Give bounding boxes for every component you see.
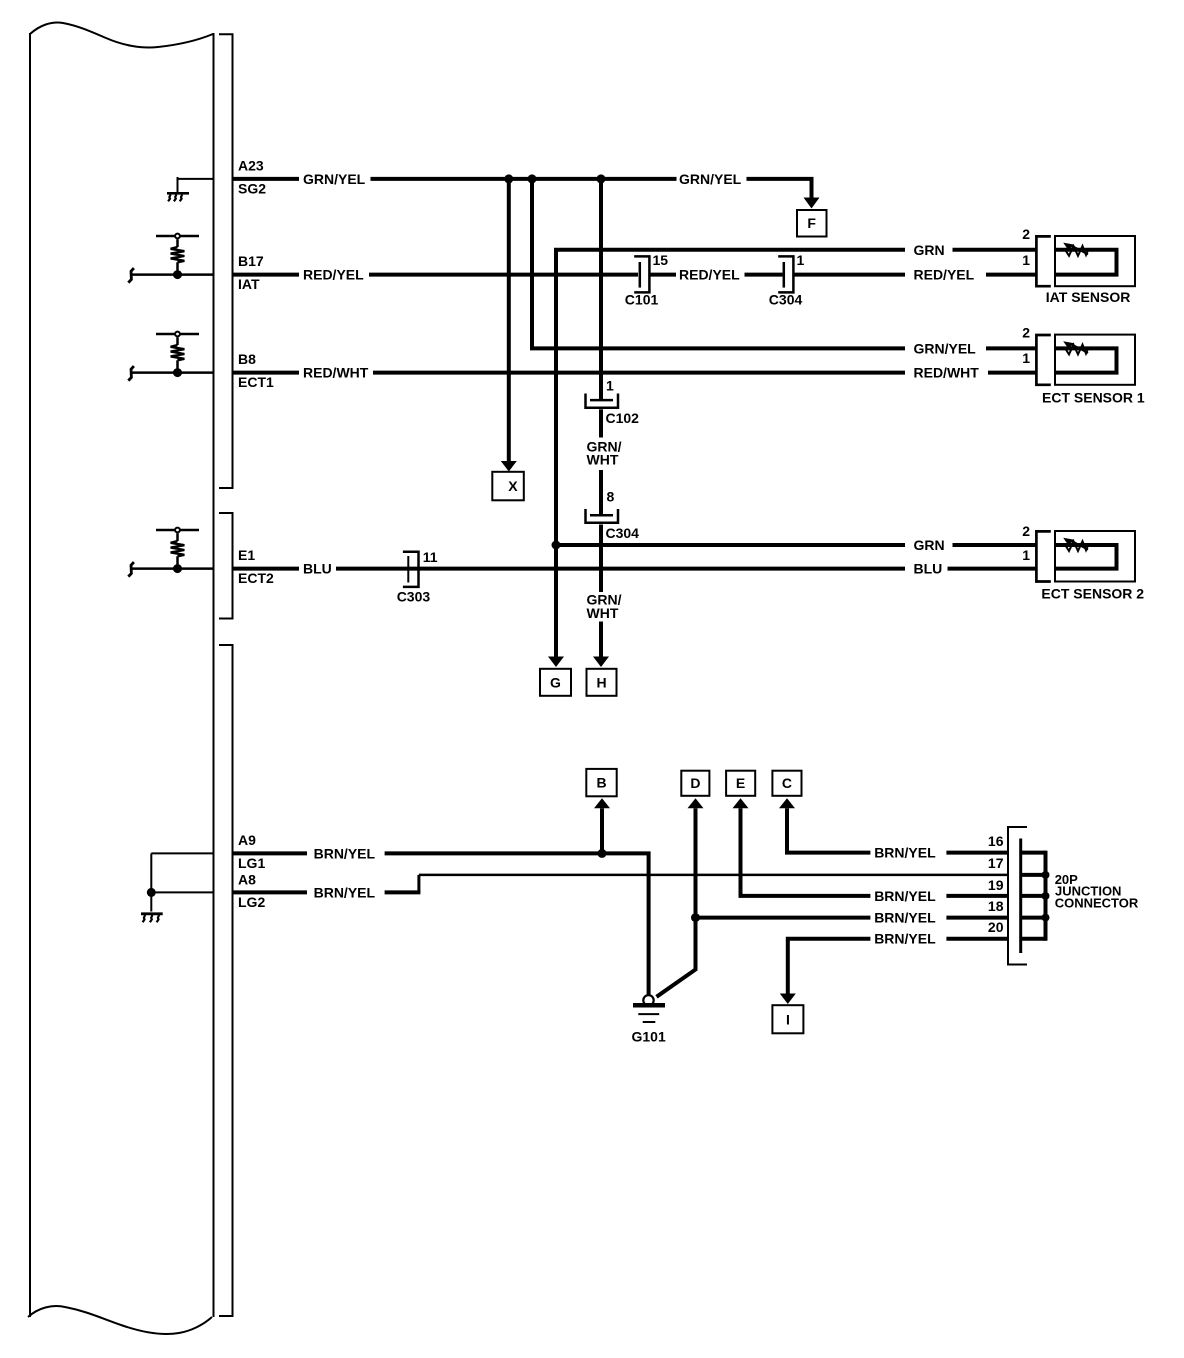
wire E1 BLU segment 1 bbox=[233, 567, 300, 571]
internal wire to A9 pin bbox=[151, 852, 213, 854]
arrowhead into X bbox=[501, 461, 517, 472]
connector C304 bracket (horizontal wire) bbox=[778, 256, 793, 292]
svg-text:1: 1 bbox=[1022, 350, 1030, 366]
connector box C bbox=[772, 771, 801, 796]
resistor (pull-up) inside ECM at B8 bbox=[156, 332, 199, 373]
svg-text:C303: C303 bbox=[397, 589, 431, 605]
junction dots on bus bbox=[1042, 871, 1050, 879]
junction dot at B8 internal node bbox=[173, 368, 182, 377]
svg-text:WHT: WHT bbox=[587, 605, 619, 621]
internal wire to B8 pin bbox=[132, 371, 214, 374]
svg-text:2: 2 bbox=[1022, 324, 1030, 340]
wire x556 down to G bbox=[554, 545, 558, 657]
svg-text:G101: G101 bbox=[632, 1029, 666, 1045]
wire RED/YEL toward IAT sensor bbox=[795, 273, 906, 277]
wire A8 BRN/YEL to junction connector pin 17 bbox=[419, 874, 1008, 877]
connector box H bbox=[587, 669, 617, 696]
connector box G bbox=[540, 669, 571, 696]
svg-text:20: 20 bbox=[988, 919, 1004, 935]
wire GRN/WHT below C102 bbox=[599, 409, 603, 437]
svg-text:F: F bbox=[807, 215, 816, 231]
svg-text:RED/YEL: RED/YEL bbox=[914, 267, 975, 283]
svg-text:WHT: WHT bbox=[587, 452, 619, 468]
wire drop to X box bbox=[507, 179, 511, 461]
connector C303 bracket bbox=[403, 552, 419, 587]
svg-text:11: 11 bbox=[423, 549, 438, 565]
arrowhead into G bbox=[548, 657, 564, 668]
arrowhead into F bbox=[804, 198, 820, 209]
wire A8 BRN/YEL segment 2 bbox=[385, 890, 421, 894]
connector C101 pin bar bbox=[639, 262, 642, 288]
wire pin 18 to junction connector bbox=[946, 916, 1008, 920]
svg-text:ECT1: ECT1 bbox=[238, 374, 274, 390]
wire GRN into IAT plug bbox=[953, 248, 1036, 252]
20P junction connector bus stubs bbox=[1021, 851, 1046, 855]
connector box F bbox=[797, 210, 827, 237]
IAT SENSOR thermistor bbox=[1063, 243, 1088, 256]
svg-text:B: B bbox=[596, 775, 606, 791]
wire GRN/WHT to H bbox=[599, 622, 603, 657]
svg-text:15: 15 bbox=[653, 252, 669, 268]
wire drop x532 to ECT SENSOR 1 GRN/YEL bbox=[532, 179, 905, 349]
ECT SENSOR 2 plug bbox=[1036, 531, 1050, 581]
junction dot at x556 ECT2 GRN node bbox=[552, 541, 561, 550]
svg-text:I: I bbox=[786, 1012, 790, 1028]
connector box E bbox=[726, 771, 755, 796]
IAT SENSOR body bbox=[1055, 236, 1135, 286]
svg-text:RED/YEL: RED/YEL bbox=[679, 267, 740, 283]
svg-text:E1: E1 bbox=[238, 547, 255, 563]
wire pin 20 to junction connector bbox=[946, 937, 1008, 941]
resistor (pull-up) inside ECM at E1 bbox=[156, 528, 199, 569]
arrowhead into I bbox=[780, 994, 796, 1005]
ECT SENSOR 2 body bbox=[1055, 531, 1135, 582]
wire A9 BRN/YEL segment 1 bbox=[233, 851, 308, 855]
svg-text:GRN: GRN bbox=[914, 242, 945, 258]
arrowhead into E bbox=[733, 798, 749, 808]
resistor (pull-up) inside ECM at B17 bbox=[156, 234, 199, 275]
internal wire to B17 pin bbox=[132, 273, 214, 276]
ECT SENSOR 2 internal circuit bbox=[1055, 545, 1117, 569]
svg-text:A23: A23 bbox=[238, 158, 264, 174]
svg-text:C101: C101 bbox=[625, 292, 659, 308]
ECT SENSOR 1 thermistor bbox=[1063, 341, 1088, 354]
svg-text:BLU: BLU bbox=[914, 561, 943, 577]
junction dot at E1 internal node bbox=[173, 564, 182, 573]
svg-text:GRN: GRN bbox=[914, 537, 945, 553]
svg-text:ECT SENSOR 2: ECT SENSOR 2 bbox=[1041, 585, 1144, 601]
junction dot node at x509 on GRN/YEL bbox=[504, 174, 513, 183]
wire A9 BRN/YEL segment 2 with corner down to G101 bbox=[385, 853, 649, 995]
ECM/PCM module boundary left edge bbox=[29, 33, 31, 1317]
off-page hook at E1 internal wire bbox=[128, 562, 134, 577]
ECT SENSOR 2 thermistor bbox=[1063, 538, 1088, 551]
wire C down corner to pin 16 bbox=[787, 808, 870, 852]
wire GRN to IAT pin 2 with corner at x556 bbox=[556, 250, 905, 545]
wire pin 18 BRN/YEL from D wire bbox=[696, 916, 871, 920]
wire GRN into ECT2 plug bbox=[953, 543, 1036, 547]
internal wire to E1 pin bbox=[132, 567, 214, 570]
connector C303 pin bar bbox=[407, 556, 409, 583]
wire BLU into ECT2 plug bbox=[948, 567, 1036, 571]
wire RED/YEL into IAT plug bbox=[986, 273, 1036, 277]
svg-text:RED/WHT: RED/WHT bbox=[914, 365, 980, 381]
connector box B bbox=[586, 769, 616, 796]
svg-text:LG2: LG2 bbox=[238, 894, 265, 910]
svg-text:SG2: SG2 bbox=[238, 181, 266, 197]
svg-text:1: 1 bbox=[1022, 547, 1030, 563]
junction dot at B node on A9 wire bbox=[598, 849, 607, 858]
svg-text:8: 8 bbox=[607, 489, 615, 505]
svg-text:LG1: LG1 bbox=[238, 855, 265, 871]
svg-text:ECT SENSOR 1: ECT SENSOR 1 bbox=[1042, 389, 1145, 405]
IAT SENSOR internal circuit bbox=[1055, 250, 1117, 275]
junction dot pin18 tap on D wire bbox=[691, 913, 700, 922]
20P junction connector outer bracket bbox=[1008, 827, 1027, 965]
ground symbol inside ECM at LG1/LG2 bbox=[141, 914, 163, 923]
svg-text:1: 1 bbox=[1022, 252, 1030, 268]
wire D down to G101 diagonal bbox=[657, 808, 696, 997]
svg-text:1: 1 bbox=[606, 378, 614, 394]
svg-text:GRN/YEL: GRN/YEL bbox=[914, 340, 977, 356]
G101 ground bars bbox=[633, 1003, 665, 1008]
svg-text:1: 1 bbox=[797, 252, 805, 268]
svg-text:BRN/YEL: BRN/YEL bbox=[874, 931, 936, 947]
wire GRN/YEL into ECT1 plug bbox=[986, 346, 1036, 350]
wire GRN/WHT to C304 bbox=[599, 470, 603, 515]
connector C304 bracket (vertical wire) bbox=[586, 509, 619, 523]
connector box I bbox=[772, 1005, 803, 1033]
svg-text:IAT SENSOR: IAT SENSOR bbox=[1046, 289, 1131, 305]
svg-text:RED/YEL: RED/YEL bbox=[303, 267, 364, 283]
wire E1 BLU segment 2 through C303 bbox=[336, 567, 905, 571]
wire B8 RED/WHT segment 2 bbox=[373, 371, 905, 375]
wire up to B box bbox=[600, 808, 604, 853]
svg-text:IAT: IAT bbox=[238, 276, 260, 292]
junction dot at A8 internal node bbox=[147, 888, 156, 897]
internal wire joining A9/A8 to ground bbox=[150, 853, 152, 911]
wire E down corner to pin 19 bbox=[741, 808, 871, 896]
svg-text:A8: A8 bbox=[238, 872, 256, 888]
ECT SENSOR 1 body bbox=[1055, 335, 1135, 385]
svg-text:18: 18 bbox=[988, 898, 1004, 914]
svg-text:17: 17 bbox=[988, 855, 1004, 871]
svg-text:D: D bbox=[690, 775, 700, 791]
wire A23 GRN/YEL segment 2 bbox=[371, 177, 677, 181]
ECT SENSOR 1 plug bbox=[1036, 335, 1050, 385]
wire GRN/WHT below C304 bbox=[599, 525, 603, 593]
arrowhead into D bbox=[688, 798, 704, 808]
connector C101 bracket bbox=[634, 256, 649, 292]
wire RED/YEL between C101 and label bbox=[651, 273, 677, 277]
wire drop x601 to C102 bbox=[599, 179, 603, 400]
svg-text:BRN/YEL: BRN/YEL bbox=[874, 888, 936, 904]
off-page hook at B8 internal wire bbox=[128, 366, 134, 381]
arrowhead into H bbox=[593, 657, 609, 668]
20P junction connector inner bar bbox=[1019, 839, 1022, 954]
connector box D bbox=[681, 771, 709, 796]
svg-text:X: X bbox=[508, 478, 518, 494]
svg-text:BRN/YEL: BRN/YEL bbox=[314, 884, 376, 900]
svg-text:ECT2: ECT2 bbox=[238, 570, 274, 586]
IAT SENSOR plug bbox=[1036, 236, 1050, 286]
wire pin 20 BRN/YEL with corner down to I bbox=[788, 939, 871, 994]
svg-text:A9: A9 bbox=[238, 832, 256, 848]
20P junction connector bus bbox=[1044, 851, 1048, 941]
wire B8 RED/WHT segment 1 bbox=[233, 371, 300, 375]
svg-text:C: C bbox=[782, 775, 792, 791]
svg-text:C102: C102 bbox=[606, 410, 640, 426]
svg-text:H: H bbox=[596, 675, 606, 691]
junction dot node at x601 on GRN/YEL bbox=[597, 174, 606, 183]
svg-text:B8: B8 bbox=[238, 351, 256, 367]
wire A23 GRN/YEL segment 3 with corner to F bbox=[747, 179, 812, 198]
wire pin 19 to junction connector bbox=[946, 894, 1008, 898]
svg-text:CONNECTOR: CONNECTOR bbox=[1055, 895, 1139, 910]
connector C102 pin bar bbox=[590, 399, 613, 402]
svg-text:GRN/YEL: GRN/YEL bbox=[679, 171, 742, 187]
svg-text:B17: B17 bbox=[238, 253, 264, 269]
ECM connector bracket 2 (E row) bbox=[219, 513, 233, 619]
arrowhead into B bbox=[594, 798, 610, 808]
ECM bottom torn-edge wave bbox=[28, 1306, 212, 1334]
wire RED/YEL to C304 bbox=[745, 273, 783, 277]
internal wire to A8 pin bbox=[151, 891, 213, 893]
wire A23 GRN/YEL segment 1 bbox=[233, 177, 300, 181]
svg-text:BRN/YEL: BRN/YEL bbox=[874, 910, 936, 926]
ECM connector bracket 3 (lower rows) bbox=[219, 645, 233, 1316]
ECT SENSOR 1 internal circuit bbox=[1055, 348, 1117, 372]
ECM module boundary inner line bbox=[213, 33, 215, 1317]
ECM connector bracket 1 (A/B rows) bbox=[219, 34, 233, 488]
connector box X bbox=[492, 472, 524, 501]
wire B17 RED/YEL segment 2 bbox=[369, 273, 638, 277]
wire pin 16 to junction connector bbox=[946, 851, 1008, 855]
ground symbol inside ECM at SG2 bbox=[167, 177, 214, 201]
svg-text:2: 2 bbox=[1022, 523, 1030, 539]
arrowhead into C bbox=[779, 798, 795, 808]
wire B17 RED/YEL segment 1 bbox=[233, 273, 300, 277]
svg-text:BRN/YEL: BRN/YEL bbox=[874, 845, 936, 861]
junction dot at B17 internal node bbox=[173, 270, 182, 279]
wire A8 step up bbox=[417, 875, 420, 893]
svg-text:GRN/YEL: GRN/YEL bbox=[303, 171, 366, 187]
svg-text:G: G bbox=[550, 675, 561, 691]
svg-text:BRN/YEL: BRN/YEL bbox=[314, 845, 376, 861]
svg-text:C304: C304 bbox=[769, 292, 803, 308]
junction dot node at x532 on GRN/YEL bbox=[528, 174, 537, 183]
svg-text:BLU: BLU bbox=[303, 561, 332, 577]
connector C304 pin bar (vertical wire) bbox=[590, 514, 613, 517]
svg-text:16: 16 bbox=[988, 833, 1004, 849]
svg-text:19: 19 bbox=[988, 877, 1004, 893]
svg-text:E: E bbox=[736, 775, 745, 791]
svg-text:2: 2 bbox=[1022, 226, 1030, 242]
wire A8 BRN/YEL segment 1 bbox=[233, 890, 308, 894]
svg-text:C304: C304 bbox=[606, 525, 640, 541]
off-page hook at B17 internal wire bbox=[128, 268, 134, 283]
svg-text:RED/WHT: RED/WHT bbox=[303, 365, 369, 381]
ECM top torn-edge wave bbox=[30, 22, 213, 47]
G101 ground circle bbox=[643, 995, 653, 1005]
wire RED/WHT into ECT1 plug bbox=[988, 371, 1036, 375]
wire GRN from ECT2 node to sensor bbox=[556, 543, 905, 547]
connector C102 bracket bbox=[586, 394, 619, 408]
connector C304 pin bar (horizontal wire) bbox=[783, 262, 786, 288]
